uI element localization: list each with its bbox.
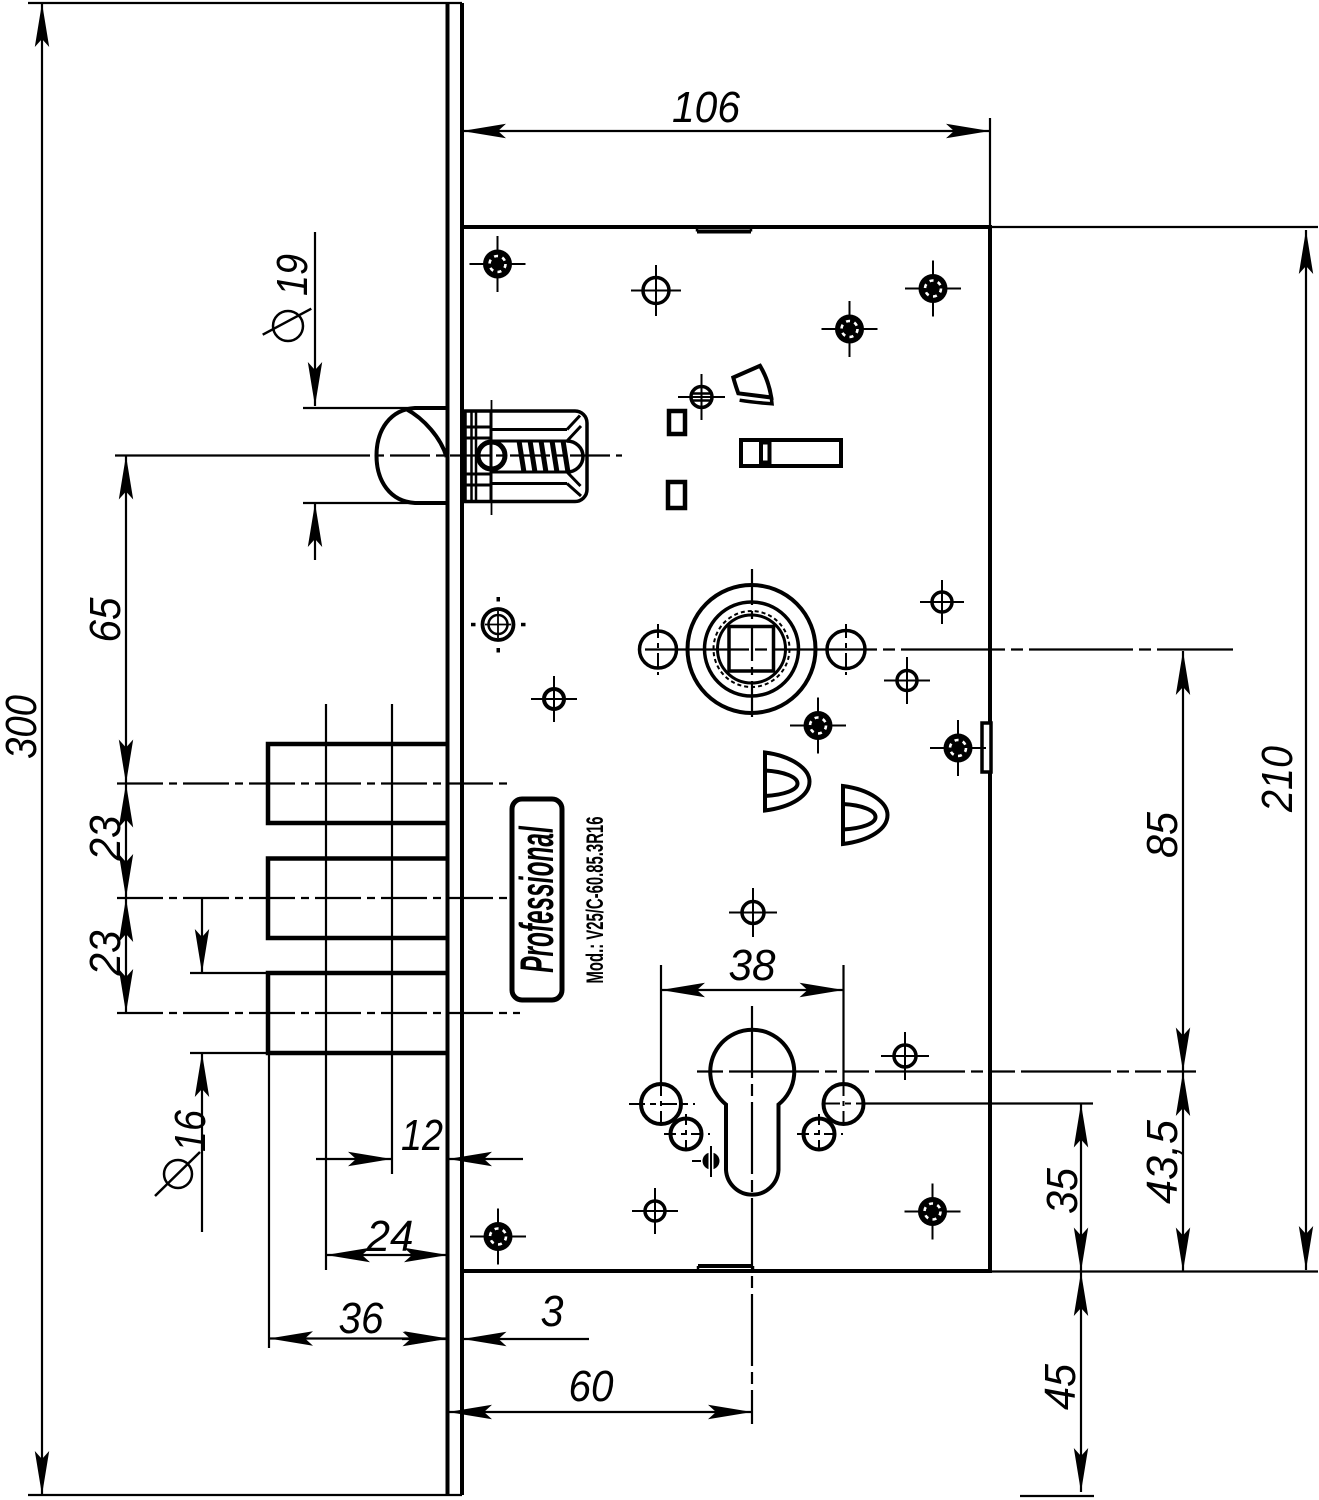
- svg-text:12: 12: [401, 1111, 443, 1160]
- svg-text:60: 60: [569, 1362, 614, 1411]
- svg-text:45: 45: [1036, 1364, 1085, 1410]
- svg-text:210: 210: [1253, 746, 1302, 813]
- svg-text:85: 85: [1138, 812, 1187, 858]
- svg-text:3: 3: [541, 1287, 564, 1336]
- svg-text:23: 23: [81, 815, 130, 861]
- svg-text:23: 23: [81, 930, 130, 976]
- svg-text:Professional: Professional: [510, 825, 563, 973]
- svg-text:19: 19: [268, 254, 317, 296]
- svg-text:300: 300: [0, 695, 46, 759]
- svg-text:24: 24: [366, 1212, 414, 1261]
- svg-text:38: 38: [729, 941, 776, 990]
- svg-text:35: 35: [1038, 1168, 1087, 1214]
- svg-text:36: 36: [339, 1294, 384, 1343]
- svg-text:16: 16: [166, 1110, 215, 1152]
- svg-text:106: 106: [672, 83, 740, 132]
- svg-text:65: 65: [81, 597, 130, 642]
- svg-text:43,5: 43,5: [1138, 1119, 1187, 1204]
- svg-text:Mod.: V25/C-60.85.3R16: Mod.: V25/C-60.85.3R16: [583, 817, 609, 984]
